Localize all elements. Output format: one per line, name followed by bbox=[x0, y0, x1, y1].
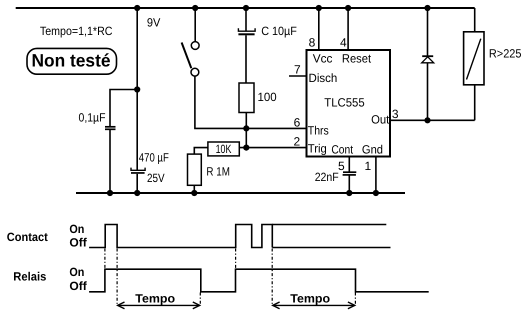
arrow tempo 1 bbox=[118, 304, 200, 306]
svg-text:Thrs: Thrs bbox=[308, 124, 329, 138]
svg-text:R 1M: R 1M bbox=[206, 164, 230, 178]
svg-text:Vcc: Vcc bbox=[313, 51, 333, 65]
svg-text:On: On bbox=[69, 265, 84, 279]
svg-text:Reset: Reset bbox=[342, 51, 372, 65]
svg-text:25V: 25V bbox=[147, 171, 165, 185]
svg-text:470 µF: 470 µF bbox=[139, 150, 169, 164]
diode D1 bbox=[427, 8, 429, 56]
svg-text:22nF: 22nF bbox=[315, 170, 339, 184]
svg-text:1: 1 bbox=[365, 159, 372, 173]
svg-text:Off: Off bbox=[69, 235, 87, 249]
svg-text:0,1µF: 0,1µF bbox=[79, 111, 106, 125]
resistor R3 10K bbox=[208, 142, 239, 156]
wire 22nF to ground rail bbox=[348, 175, 350, 193]
node dot bbox=[108, 191, 113, 196]
pin 1 Gnd wire bbox=[375, 157, 377, 194]
node dot bbox=[135, 191, 140, 196]
wire R1M to ground rail bbox=[193, 185, 195, 193]
node junction top at 470uF branch bbox=[135, 6, 140, 11]
svg-text:100: 100 bbox=[258, 90, 278, 104]
wire top supply rail bbox=[16, 7, 475, 9]
svg-text:TLC555: TLC555 bbox=[324, 96, 365, 110]
resistor R2 100 bbox=[239, 83, 254, 113]
svg-text:Tempo: Tempo bbox=[290, 292, 330, 306]
svg-text:6: 6 bbox=[294, 115, 301, 129]
svg-text:Disch: Disch bbox=[309, 71, 338, 85]
node dot bbox=[192, 191, 197, 196]
relay K1 bbox=[474, 8, 476, 32]
note box "Non testé" bbox=[27, 48, 117, 74]
capacitor C3 470uF polarized bbox=[131, 168, 145, 171]
marker dashed line contact rise 1 bbox=[104, 249, 106, 270]
svg-text:Tempo=1,1*RC: Tempo=1,1*RC bbox=[40, 24, 113, 38]
wire switch to Thrs line bbox=[195, 76, 307, 128]
svg-text:Cont: Cont bbox=[331, 142, 353, 156]
svg-text:8: 8 bbox=[309, 35, 316, 49]
waveform Contact held-on line bbox=[272, 224, 386, 226]
op IC U1 TLC555 body bbox=[307, 50, 391, 157]
node junction 0,1uF branch bbox=[135, 87, 140, 92]
capacitor C1 10uF polarized bbox=[245, 8, 247, 31]
svg-text:10K: 10K bbox=[216, 142, 232, 156]
capacitor C2 0,1uF bbox=[105, 126, 116, 128]
svg-text:Gnd: Gnd bbox=[362, 143, 383, 157]
waveform Contact trace bbox=[89, 225, 272, 248]
node dot switch top bbox=[193, 6, 198, 11]
marker dashed line contact fall 2 bbox=[271, 249, 273, 306]
node Trig junction bbox=[244, 145, 249, 150]
waveform Relais trace bbox=[89, 269, 429, 292]
svg-text:Relais: Relais bbox=[13, 270, 46, 284]
svg-text:9V: 9V bbox=[147, 16, 161, 30]
svg-text:3: 3 bbox=[392, 107, 399, 121]
svg-text:4: 4 bbox=[340, 35, 347, 49]
svg-text:On: On bbox=[69, 222, 84, 236]
node diode junction on out bbox=[425, 118, 430, 123]
svg-text:R>225: R>225 bbox=[489, 47, 522, 61]
capacitor C4 22nF bbox=[343, 171, 356, 173]
waveform Contact off line bbox=[272, 247, 390, 249]
marker dashed line relais fall 2 bbox=[354, 293, 356, 306]
pin 3 Out wire bbox=[390, 119, 475, 121]
marker dashed line contact fall 1 bbox=[116, 249, 118, 306]
switch S1 bbox=[194, 8, 196, 41]
wire 0,1uF to ground rail bbox=[109, 130, 111, 193]
resistor R1 1M bbox=[188, 154, 202, 185]
marker dashed line relais fall 1 bbox=[199, 293, 201, 306]
svg-text:Contact: Contact bbox=[7, 230, 48, 244]
svg-text:Out: Out bbox=[371, 113, 390, 127]
pin 5 Cont wire bbox=[348, 157, 350, 172]
wire C1 to R 100 bbox=[245, 35, 247, 83]
wire 470uF to ground rail bbox=[136, 174, 138, 193]
marker dashed line contact rise 2 bbox=[235, 249, 237, 270]
svg-text:Trig: Trig bbox=[308, 141, 327, 155]
wire left vertical from 9V rail bbox=[136, 8, 138, 170]
pin 4 Reset wire bbox=[347, 8, 349, 50]
wire 10K left to R1M bbox=[194, 148, 208, 155]
wire Trig line bbox=[239, 147, 306, 149]
node Thrs junction bbox=[244, 126, 249, 131]
pin 8 Vcc wire bbox=[318, 8, 320, 50]
wire bottom ground rail bbox=[76, 192, 405, 194]
svg-text:Non testé: Non testé bbox=[32, 50, 111, 70]
svg-text:7: 7 bbox=[294, 63, 301, 77]
svg-text:2: 2 bbox=[293, 135, 300, 149]
svg-text:5: 5 bbox=[338, 159, 345, 173]
wire R2 bottom to node bbox=[245, 113, 247, 148]
arrow tempo 2 bbox=[273, 304, 355, 306]
svg-text:Tempo: Tempo bbox=[135, 292, 175, 306]
pin 7 Disch stub bbox=[289, 75, 307, 77]
svg-text:C 10µF: C 10µF bbox=[261, 24, 297, 38]
svg-text:Off: Off bbox=[69, 279, 87, 293]
wire to 0,1uF bbox=[110, 90, 137, 127]
